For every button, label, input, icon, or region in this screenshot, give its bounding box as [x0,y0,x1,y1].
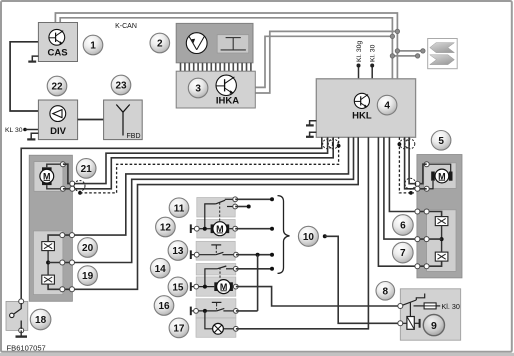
dashed wire HKL to cluster [399,137,414,193]
motor M15 [196,280,236,294]
svg-text:8: 8 [383,286,389,297]
ball 9 [423,315,444,336]
ball 5 [431,131,451,151]
brace for wire group [278,196,290,274]
motor M21 [40,167,54,185]
splice node dashed right [409,191,413,195]
wire B junction down to D [257,255,259,311]
relay box (9) [400,289,460,340]
svg-text:17: 17 [173,324,185,335]
svg-text:Kl. 30: Kl. 30 [442,302,460,311]
wire motor21 bottom lead [47,185,63,189]
pin motor21 top [60,162,65,167]
wire C switch contact [236,268,272,270]
pins on switch A [194,226,199,231]
KL 30 stub at HKL [370,44,377,78]
svg-text:4: 4 [384,101,390,112]
plug dashed circle at HKL drop b [328,139,338,149]
pins on switch D [194,309,199,314]
wire motor21 top lead [47,164,63,167]
wire: IHKA K-CAN outer link [255,31,397,93]
svg-text:14: 14 [155,264,167,275]
resistor X upper (20) [42,242,55,251]
ball 15 [168,277,188,297]
junction node A [203,227,207,231]
svg-text:7: 7 [400,248,406,259]
plug connector dashed circle at motor21 [74,181,85,192]
ball 10 [298,226,318,246]
wire between right X elements [441,226,443,253]
svg-text:FB6107057: FB6107057 [7,344,46,353]
ball 13 [168,241,188,261]
plug dashed circle at HKL drop a [323,139,333,149]
svg-text:18: 18 [35,315,47,326]
svg-text:KL 30: KL 30 [5,127,23,134]
svg-text:DIV: DIV [50,126,67,137]
ball 2 [150,33,170,53]
pins X7 bottom [415,264,420,269]
pins on switch B [194,252,199,257]
wire: K-CAN bus upper line from CAS to HKL [55,13,397,79]
svg-text:2: 2 [157,39,163,50]
ball 11 [169,198,189,218]
svg-text:1: 1 [90,41,96,52]
relay contact blade [403,294,425,317]
switch unit C upper box (14) [196,264,236,276]
fuse and KL30 [414,302,460,311]
splice node dashed start [78,191,82,195]
svg-text:FBD: FBD [127,133,141,140]
plug dashed circle at HKL drop c [400,139,410,149]
wire: K-CAN bus lower line from CAS to HKL [60,18,392,79]
wire lamp E to HKL [236,137,369,328]
wire group bundle to relay coil [325,236,401,323]
ball 8 [376,282,395,301]
ball 12 [156,217,176,237]
pins X top run [60,233,65,238]
heater unit box right (items 6/7) [427,210,456,272]
terminal bar B [190,250,192,259]
wire C motor to relay [236,287,400,306]
ball 23 [111,75,131,95]
switch unit A motor box (12) [197,220,235,239]
switch 18 box [6,299,28,333]
ball 1 [83,35,103,55]
control unit DIV [38,100,77,140]
wire X mid run to HKL [48,137,353,262]
svg-text:10: 10 [303,232,315,243]
svg-text:HKL: HKL [352,111,372,122]
svg-text:11: 11 [174,203,185,214]
ball 19 [78,266,98,286]
ball 22 [47,76,67,96]
svg-text:15: 15 [172,283,184,294]
junction node C [203,285,207,289]
ball 6 [393,215,414,236]
wire A second contact [235,206,249,208]
motor unit box (item 21) [34,162,63,192]
ball 14 [150,258,170,278]
terminal bar D [190,307,192,316]
terminal bar A motor [190,224,192,233]
pin connector left cluster b [70,186,75,191]
svg-text:13: 13 [172,246,184,257]
wire HKL to X junction [384,137,442,239]
svg-text:3: 3 [195,84,201,95]
bottom window band [0,353,514,356]
wire B to junction and end node [236,254,272,256]
ball 4 [377,95,397,115]
junction node between X [46,261,50,265]
svg-text:5: 5 [438,136,444,147]
control unit HKL [316,79,415,138]
svg-text:12: 12 [160,223,172,234]
motor M12 [197,222,235,236]
svg-text:Kl. 30: Kl. 30 [370,44,377,62]
svg-text:22: 22 [51,82,63,93]
wire: IHKA K-CAN inner link [255,36,392,87]
lamp unit E box (17) [196,318,236,337]
pins on switch C [194,284,199,289]
IHKA connector pins [181,63,251,71]
ball 17 [169,318,189,338]
pin motor21 bottom [60,186,65,191]
wire A motor [235,228,272,230]
KL 30g stub at HKL [356,41,363,79]
pin connector left cluster a [70,181,75,186]
svg-text:IHKA: IHKA [216,96,239,107]
junction node right X [440,237,444,241]
heater unit box (items 19/20) [33,231,63,295]
ball 20 [78,238,98,258]
relay coil [403,317,420,330]
wire X bottom run to HKL [48,137,358,289]
switch unit D box (16) [196,299,236,318]
pins X bottom run [60,287,65,292]
svg-text:6: 6 [400,221,406,232]
motor unit box (item 5) [424,163,456,189]
resistor X upper right (6) [435,217,448,226]
ball 21 [76,159,96,179]
wire between X elements [47,251,49,276]
wire HKL to X6 top [389,137,441,216]
wire motor5 bottom lead [427,181,433,189]
pins X junction [415,237,420,242]
svg-text:16: 16 [158,301,170,312]
svg-text:Kl. 30g: Kl. 30g [356,41,363,62]
motor M5 [431,169,452,183]
wire: tap to arrow symbol upper [397,50,423,52]
pins X6 top [415,209,420,214]
ground at CAS [32,56,38,61]
svg-text:K-CAN: K-CAN [115,23,137,30]
plug dashed circle at HKL drop d [405,139,415,149]
resistor X lower right (7) [435,252,448,261]
arrow continuation symbol box [428,39,458,69]
svg-text:19: 19 [82,271,94,282]
ground at HKL lower [310,132,317,136]
wire motor21 bottom to HKL [63,137,333,189]
switch B internals [197,245,236,255]
lamp E internals [205,311,236,334]
control unit IHKA lower box [176,71,255,108]
switch C internals [205,266,236,287]
ground at DIV [31,133,38,139]
wire D to junction [236,310,258,312]
wire HKL to motor5 bottom [405,137,427,189]
svg-text:20: 20 [82,243,94,254]
svg-text:CAS: CAS [47,48,67,59]
left actuator assembly outer box [29,155,72,301]
wire: tap to arrow symbol lower [392,55,417,57]
IHKA control panel upper box [176,23,253,62]
switch A internals [205,199,235,228]
wire motor5 top lead [427,164,451,171]
wire A top contact [235,198,272,200]
right actuator assembly outer box [417,155,462,278]
svg-text:21: 21 [81,164,93,175]
svg-text:9: 9 [431,320,437,332]
ball 7 [393,242,414,263]
wire X top run to HKL [48,137,348,241]
wire HKL to X7 bottom [378,137,441,266]
wire DIV to FBD [78,119,104,121]
svg-text:23: 23 [115,81,127,92]
dashed wire to HKL [80,137,339,193]
ball 3 [188,78,208,98]
wire HKL to motor5 top [409,137,427,183]
pin cluster right b [415,186,420,191]
junction node on bus right [395,29,399,33]
resistor X lower (19) [42,275,55,284]
junction node D [203,309,207,313]
plug connector dashed circle at motor5 [405,178,416,189]
switch unit A upper box (11) [197,198,235,218]
node at ball 10 [323,234,327,238]
junction node on bus left [390,34,394,38]
ground at HKL upper [310,121,317,125]
pin motor5 bottom [424,186,429,191]
splice node on dashed drop at HKL right [398,142,402,146]
ball 16 [154,296,174,316]
pin motor5 top [424,162,429,167]
wire: CAS to DIV left link [10,42,38,111]
switch unit B box (13) [196,241,235,260]
splice node on dashed drop at HKL [337,144,341,148]
ball 18 [30,309,51,330]
switch D internals [196,302,236,311]
pin on lamp E [234,326,239,331]
relay pins [398,304,403,309]
pins X mid run [60,260,65,265]
control unit CAS [38,23,77,62]
antenna module FBD [104,100,143,140]
terminal bar C motor [190,282,192,291]
wire motor21 top to HKL [63,137,328,183]
pin cluster right a [415,181,420,186]
wire switch18 to HKL via left side [21,137,322,301]
ground below switch 18 [20,330,22,336]
switch unit C motor box (15) [196,277,236,296]
